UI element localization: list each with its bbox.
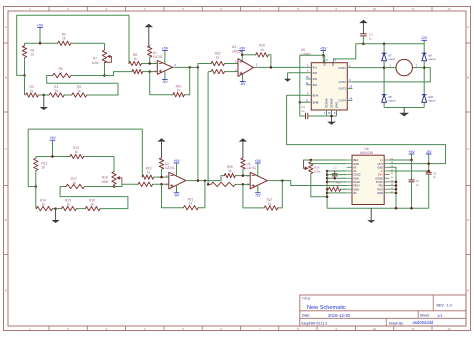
resistor R25 1k (to U4 pin2): [224, 165, 250, 178]
wire bottom-right corner of bridge 2: [60, 187, 128, 209]
title block: [300, 295, 466, 326]
svg-text:1u: 1u: [369, 36, 373, 40]
node B2 junction (bridge2 right mid): [113, 185, 116, 188]
node B junction (bridge1 right mid): [103, 74, 106, 77]
junction bottom rail / gnd col: [395, 207, 413, 210]
wire loop from node A to R8: [17, 15, 129, 75]
wire U2 output: [186, 180, 221, 182]
svg-text:1k: 1k: [216, 56, 220, 60]
junction R30 bottom / gnd column: [326, 196, 329, 199]
wire riser to R23: [198, 64, 211, 68]
op-amp U3 LM358: [232, 45, 258, 77]
resistor R6 1k: [53, 67, 105, 78]
power flag 12V: [421, 36, 428, 44]
svg-text:11: 11: [411, 7, 414, 11]
resistor R16 1k: [85, 198, 128, 211]
wire motor bridge bottom rail: [384, 107, 424, 109]
wire 12V rail: [363, 43, 424, 45]
junction A1 row: [326, 170, 335, 173]
junction bottom row / ground: [43, 94, 46, 97]
svg-text:U10: U10: [428, 96, 433, 99]
power flag -5V (U4): [255, 185, 261, 197]
junction V+ / +5V: [410, 159, 413, 162]
svg-text:1k: 1k: [228, 169, 232, 173]
node A2 junction (bridge2 left mid): [35, 185, 38, 188]
capacitor C4 1u: [301, 105, 326, 119]
svg-text:1N4007: 1N4007: [428, 100, 436, 102]
wire OUT row to ENA loop: [390, 163, 446, 165]
junction R26 / V2: [207, 183, 210, 186]
ground (IN2): [284, 78, 291, 82]
svg-text:IN3: IN3: [313, 77, 318, 81]
resistor R17 1k: [66, 177, 114, 189]
junction ground rail U5: [330, 115, 333, 118]
junction left diode column / 12V rail: [383, 42, 386, 45]
resistor R20 1k (to U2 pin3): [138, 182, 169, 186]
svg-text:V-: V-: [381, 169, 384, 173]
power flag +5V (U2): [173, 159, 180, 176]
power flag +5V (U1): [162, 46, 169, 64]
svg-text:IN4: IN4: [313, 83, 318, 87]
junction U1 output / feedback: [188, 66, 191, 69]
wire long vertical V1 (to lower stage): [197, 67, 199, 180]
svg-text:CA741: CA741: [153, 55, 163, 59]
svg-text:1k: 1k: [260, 48, 264, 52]
junction motor right node: [423, 66, 426, 69]
svg-text:+5V: +5V: [255, 159, 262, 163]
junction U1 pin3: [148, 70, 151, 73]
junction U2 pin3: [160, 183, 163, 186]
svg-text:C2: C2: [416, 179, 420, 183]
resistor R4 1k: [44, 85, 72, 97]
svg-text:+5V: +5V: [162, 46, 169, 50]
wire GND row down: [390, 167, 397, 208]
diode U8 1N4007 (top-right): [422, 44, 437, 68]
svg-text:1k: 1k: [31, 52, 35, 56]
svg-text:New Schematic: New Schematic: [307, 305, 346, 311]
svg-text:B: B: [5, 76, 7, 80]
capacitor C5 1u: [426, 171, 437, 208]
svg-text:PDO: PDO: [377, 187, 383, 191]
junction U4 pin2: [242, 174, 245, 177]
svg-text:1k: 1k: [90, 202, 94, 206]
svg-text:CA741: CA741: [165, 166, 175, 170]
svg-text:OUT3: OUT3: [339, 87, 347, 91]
wire U4 out to FADJ: [291, 181, 347, 186]
svg-text:PDI: PDI: [379, 184, 384, 188]
svg-text:IN2: IN2: [313, 71, 318, 75]
wires digital pins to gnd column: [390, 181, 398, 194]
svg-text:OUT2: OUT2: [339, 80, 347, 84]
power flag +5V (bridge 2): [49, 136, 56, 157]
resistor R29 1k (pullup): [242, 44, 271, 68]
wire node A2 down: [35, 187, 37, 209]
svg-text:COSC: COSC: [353, 173, 361, 177]
svg-text:REF: REF: [353, 158, 359, 162]
svg-text:-5V: -5V: [426, 150, 432, 154]
resistor R14 1k: [36, 198, 55, 211]
wire OUT1 to motor left node: [353, 67, 385, 69]
IC U6 MAX038: [347, 147, 394, 205]
svg-text:12: 12: [447, 7, 451, 11]
junction motor left node: [383, 66, 386, 69]
svg-text:U3: U3: [232, 45, 237, 49]
svg-text:1k: 1k: [62, 37, 66, 41]
svg-text:12V: 12V: [421, 36, 428, 40]
svg-text:A0: A0: [353, 165, 357, 169]
svg-text:REV:: REV:: [437, 304, 445, 308]
svg-text:1k: 1k: [268, 202, 272, 206]
wire U4 output: [267, 180, 291, 182]
svg-text:+5V: +5V: [239, 46, 246, 50]
resistor R12 1k: [34, 157, 48, 187]
svg-text:E: E: [467, 288, 469, 292]
junction bottom row 2 / ground: [54, 207, 57, 210]
junction C3 / 12V rail: [362, 42, 365, 45]
potentiometer R7 100k: [92, 43, 112, 75]
svg-text:-5V: -5V: [162, 80, 168, 84]
junction U4 pin3: [242, 183, 245, 186]
potentiometer R30 100k: [304, 160, 322, 174]
svg-text:SENSA: SENSA: [325, 98, 329, 108]
svg-text:GND: GND: [377, 191, 383, 195]
IC U5 L298N: [301, 48, 353, 116]
wire U6 bottom rail: [327, 207, 429, 209]
svg-text:+5V: +5V: [320, 46, 327, 50]
op-amp U4 CA741: [246, 162, 267, 189]
svg-text:VS: VS: [331, 62, 335, 66]
svg-text:10: 10: [373, 327, 377, 331]
svg-text:1k: 1k: [41, 202, 45, 206]
power flag -5V (U6): [426, 150, 432, 173]
svg-text:DGND: DGND: [375, 176, 383, 180]
resistor R26 1k (to U4 pin3): [208, 182, 250, 186]
junction ENB / +5V column: [299, 101, 302, 104]
svg-text:1k: 1k: [55, 89, 59, 93]
wire A1 row to pin: [335, 170, 347, 172]
svg-text:1k: 1k: [66, 202, 70, 206]
svg-text:IIN: IIN: [353, 191, 356, 195]
wire OUT2 to motor right node: [353, 68, 431, 82]
svg-text:1/1: 1/1: [437, 313, 443, 318]
svg-text:12: 12: [447, 327, 451, 331]
resistor R8 1k (to U1 pin2): [129, 53, 158, 66]
svg-text:-5V: -5V: [255, 193, 261, 197]
svg-text:1k: 1k: [77, 89, 81, 93]
svg-text:100K: 100K: [101, 180, 109, 184]
svg-text:1k: 1k: [30, 89, 34, 93]
wire top rail of bridge 2: [36, 156, 114, 158]
potentiometer R18 100K: [101, 157, 122, 187]
ground (bridge 2): [51, 209, 59, 223]
wire U3 output to IN1: [254, 66, 306, 68]
wire +5V rail to C4 column: [300, 55, 324, 116]
svg-text:1u: 1u: [301, 109, 305, 113]
svg-text:MAX038: MAX038: [360, 151, 373, 155]
svg-text:1k: 1k: [59, 71, 63, 75]
power flag arrow above C3: [359, 20, 367, 34]
junction U4 output: [281, 179, 284, 182]
junction DADJ row: [326, 181, 347, 184]
power flag +5V (U4): [255, 159, 262, 176]
junction U1 pin2: [148, 62, 151, 65]
svg-text:1k: 1k: [74, 150, 78, 154]
svg-text:GND: GND: [377, 165, 383, 169]
junction IIN row: [326, 192, 347, 195]
svg-text:-5V: -5V: [240, 82, 246, 86]
resistor R10 1k (U1 feedback): [150, 67, 190, 97]
svg-text:IN1: IN1: [313, 66, 318, 70]
power flag -5V (U1): [162, 71, 168, 84]
svg-text:A: A: [5, 25, 7, 29]
wire loop from node A2 to R19: [28, 129, 142, 186]
svg-text:Date:: Date:: [302, 314, 310, 318]
wire V+ row: [390, 159, 412, 161]
svg-text:DV+: DV+: [378, 173, 384, 177]
junction V- row / -5V column: [427, 170, 430, 173]
resistor RP1 (vertical, above U1 pin2): [148, 46, 152, 64]
power flag arrow above RP1: [145, 24, 153, 46]
node A junction (bridge1 left mid): [23, 74, 26, 77]
svg-text:1k: 1k: [177, 89, 181, 93]
svg-text:1k: 1k: [72, 181, 76, 185]
junction U1 output to R23/V1: [197, 66, 200, 69]
junction U2 output / feedback: [204, 179, 207, 182]
resistor R24 1k: [208, 69, 238, 73]
svg-text:FADJ: FADJ: [353, 184, 360, 188]
svg-text:L298N: L298N: [301, 52, 312, 56]
svg-text:1N4007: 1N4007: [428, 59, 436, 61]
svg-text:+5V: +5V: [49, 136, 56, 140]
wire U2 out step up to R25: [221, 176, 224, 181]
svg-text:+5V: +5V: [173, 159, 180, 163]
svg-text:asd052ddd: asd052ddd: [413, 320, 434, 325]
svg-text:E: E: [5, 288, 7, 292]
power flag +5V (VSS): [320, 46, 327, 62]
junction R30 top: [310, 159, 313, 162]
wire bottom-right corner of bridge 1: [47, 76, 118, 96]
svg-text:1k: 1k: [189, 202, 193, 206]
wire ENB stub: [300, 101, 306, 103]
svg-text:EasyEDA V3.12.3: EasyEDA V3.12.3: [302, 321, 328, 325]
wire node B to pin3 row: [105, 72, 133, 76]
resistor R23 1k: [211, 51, 238, 65]
wire V- row: [390, 170, 429, 172]
svg-text:TITLE:: TITLE:: [302, 297, 311, 301]
svg-text:OUT4: OUT4: [339, 99, 347, 103]
junction at +5V / top rail: [39, 42, 42, 45]
svg-text:Sheet:: Sheet:: [420, 314, 430, 318]
power flag -5V (U2): [174, 185, 180, 197]
svg-text:+5V: +5V: [37, 23, 44, 27]
junction VSS / +5V rail: [322, 54, 325, 57]
capacitor C1 1u: [332, 165, 338, 178]
svg-text:A1: A1: [353, 169, 357, 173]
diode U10 1N4007 (bottom-right): [422, 68, 437, 108]
junction OUT row / -5V column: [427, 162, 430, 165]
svg-text:OUT: OUT: [378, 162, 384, 166]
power flag +5V (U6): [408, 150, 415, 160]
svg-text:-5V: -5V: [174, 193, 180, 197]
svg-text:OUT1: OUT1: [339, 66, 347, 70]
svg-text:A: A: [467, 25, 469, 29]
power flag arrow above RP2: [157, 138, 165, 158]
junction COSC row: [326, 173, 347, 176]
ground (U5): [327, 116, 336, 125]
svg-text:1k: 1k: [133, 57, 137, 61]
wire top rail of bridge 1: [25, 42, 105, 44]
wire node A down to bottom row: [24, 75, 26, 95]
power flag +5V (U3): [239, 46, 246, 61]
wire R30 bottom to IIN area: [311, 174, 327, 197]
junction U2 pin2: [160, 176, 163, 179]
resistor R31 1k (GND row): [326, 181, 347, 192]
wire U1 output: [173, 66, 198, 68]
resistor R3 1k: [26, 85, 44, 97]
wire long vertical V2 (to lower stage): [207, 72, 209, 185]
svg-text:GND: GND: [353, 162, 359, 166]
svg-text:ENA: ENA: [313, 94, 319, 98]
power flag -5V (U3): [240, 74, 246, 86]
svg-text:ENB: ENB: [313, 100, 319, 104]
svg-text:100k: 100k: [92, 61, 99, 65]
diode U9 1N4007 (bottom-left): [382, 68, 397, 108]
resistor R21 1k (U2 feedback): [162, 181, 205, 210]
resistor R5 1k: [72, 85, 118, 97]
svg-text:V+: V+: [380, 158, 384, 162]
wire ENA loop from MAX038 OUT: [287, 95, 446, 163]
svg-text:GND: GND: [353, 176, 359, 180]
svg-text:10: 10: [373, 7, 377, 11]
resistor R13 1k: [70, 146, 84, 159]
svg-text:1.0: 1.0: [447, 304, 452, 308]
ground (motor bridge): [399, 108, 409, 117]
svg-text:+5V: +5V: [408, 150, 415, 154]
svg-text:1k: 1k: [42, 165, 46, 169]
wire VS to 12V rail: [333, 44, 363, 59]
svg-text:B: B: [467, 76, 469, 80]
op-amp U2 CA741: [165, 162, 186, 189]
svg-text:DADJ: DADJ: [353, 180, 360, 184]
svg-text:CA741: CA741: [246, 166, 256, 170]
svg-text:R31: R31: [336, 181, 341, 185]
power flag +5V (top-left bridge): [37, 23, 44, 43]
svg-text:Drawn By:: Drawn By:: [389, 321, 404, 325]
resistor R9 1k (to U1 pin3): [132, 69, 157, 73]
resistor R2 1k: [58, 33, 71, 46]
wire ground rail under U5: [326, 115, 336, 117]
resistor R1 1k: [22, 43, 35, 75]
svg-text:1k: 1k: [147, 171, 151, 175]
svg-text:1N4007: 1N4007: [388, 59, 396, 61]
svg-text:GND: GND: [335, 102, 339, 108]
wire GND row 2 of U6: [311, 163, 347, 165]
junction U3 V+ / R29: [241, 54, 244, 57]
wire REF row to R30: [304, 159, 347, 161]
resistor R19 1k (to U2 pin2): [142, 167, 169, 180]
power flag arrow above RP4: [239, 138, 247, 158]
diode U7 1N4007 (top-left): [382, 44, 397, 68]
resistor R27 1k (U4 feedback): [243, 181, 282, 211]
capacitor C3 1u: [360, 32, 373, 43]
wire node B2 to pin3 row 2: [114, 184, 138, 186]
junction U3 output / R29: [270, 66, 273, 69]
resistor R15 1k: [56, 198, 86, 211]
ground (bridge 1): [40, 95, 48, 110]
motor M1: [384, 59, 424, 75]
capacitor C2 1u: [409, 160, 420, 208]
svg-text:GND: GND: [353, 187, 359, 191]
svg-text:C1: C1: [333, 165, 337, 169]
ground (U6): [367, 208, 375, 223]
wire left gnd column of U6: [326, 171, 328, 208]
resistor RP4 (vertical, above U4 pin2): [241, 158, 245, 176]
svg-text:SYNC: SYNC: [376, 180, 383, 184]
svg-text:2016-12-30: 2016-12-30: [328, 313, 351, 318]
svg-text:100k: 100k: [314, 170, 321, 174]
op-amp U1 CA741: [153, 51, 177, 74]
svg-text:11: 11: [411, 327, 414, 331]
resistor RP2 (vertical, above U2 pin2): [159, 158, 163, 177]
wire IN2 to ground: [288, 73, 306, 78]
svg-text:C5: C5: [433, 171, 437, 175]
svg-text:1N4007: 1N4007: [388, 100, 396, 102]
junction GND row (C1 bottom): [326, 177, 347, 180]
junction U2 output / V1: [197, 179, 200, 182]
svg-text:SENSB: SENSB: [330, 98, 334, 108]
junction +5V / top rail 2: [51, 155, 54, 158]
